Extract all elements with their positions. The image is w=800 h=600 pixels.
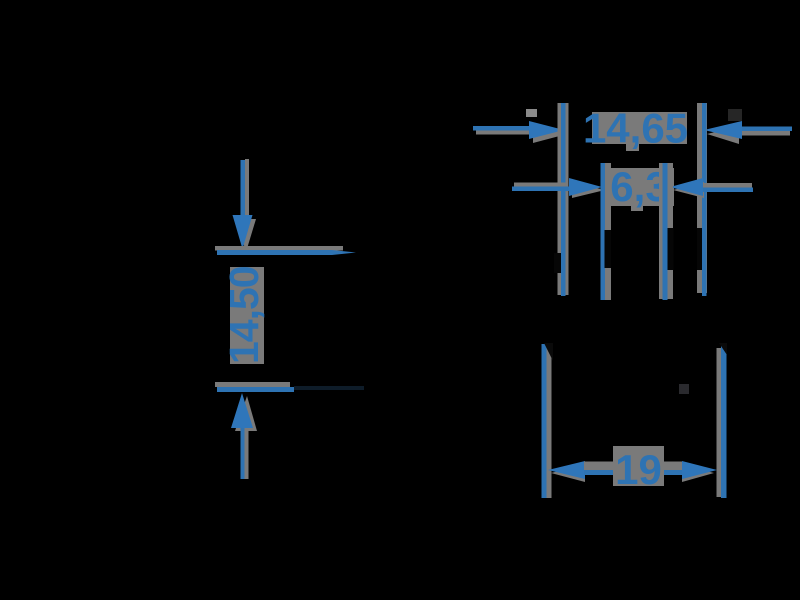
right arrowhead pointing left (blue) [670,178,703,196]
extension line D (gray ghost) [697,103,707,293]
right outer dimension line (gray ghost) [742,131,790,136]
left dimension line segment (blue) [584,470,613,475]
dimension text 14,50 gray halo box [230,267,264,364]
extension line A (gray ghost) [558,103,569,295]
left arrowhead pointing right (gray ghost) [572,182,605,198]
extension leader top vertical line (gray ghost) [245,159,249,219]
right dimension line segment (blue) [664,470,682,475]
right arrowhead pointing left (gray ghost) [707,126,739,144]
left outer dimension line (gray ghost) [514,183,568,188]
left arrowhead pointing right (blue) [529,121,564,139]
left arrowhead pointing left (gray ghost) [551,464,585,482]
right outer dimension line (gray ghost) [704,183,752,188]
right extension line (blue) [721,344,727,498]
left arrowhead pointing right (gray ghost) [533,125,567,143]
extension line B (gray ghost) [605,163,612,300]
pin occluder over extension line B [605,230,612,268]
bottom arrowhead pointing up (blue) [231,393,253,428]
svg-text:14,65: 14,65 [583,105,688,152]
extension leader bottom vertical line (gray ghost) [245,428,249,479]
left extension line top dark notch [544,343,553,361]
dimension line 2 horizontal (blue) [217,387,294,392]
comma gray halo extension (6,3) [631,204,643,211]
pin occluder over extension line D [697,228,702,270]
left arrowhead pointing left (blue) [548,461,585,479]
dimension text 19 gray halo box [613,446,664,486]
extension leader bottom vertical line (blue) [241,428,245,479]
right extension line (gray ghost) [717,348,722,497]
right arrowhead pointing right (blue) [682,461,717,479]
svg-text:19: 19 [615,446,662,493]
left dimension line segment (gray ghost) [584,462,614,471]
left extension line (blue) [542,344,547,498]
bottom arrowhead pointing up (gray ghost) [235,396,257,431]
pin occluder over extension line A [554,253,561,273]
faint dark square artifact [679,384,689,394]
right outer dimension line (blue) [742,127,792,132]
left extension line (gray ghost) [547,348,552,498]
dimension text 6,3 gray halo box [607,168,674,206]
extension line D (blue) [702,103,707,296]
top arrowhead pointing down (gray ghost) [236,219,256,252]
dimension line 2 horizontal (gray ghost) [215,382,290,387]
right outer dimension line (blue) [703,188,753,193]
left outer dimension line (blue) [512,187,570,192]
dimension text 14,65 gray halo box [592,112,687,144]
right arrowhead pointing left (gray ghost) [673,182,704,198]
dark smudge left of right arrow [728,109,742,121]
left outer dimension line (blue) [473,126,530,131]
dimension line 1 horizontal (blue) [217,250,356,255]
left arrowhead pointing right (blue) [569,178,602,196]
gray smudge above left arrow [526,109,537,117]
comma gray halo extension [626,143,639,151]
dimension line 2 faint dark continuation [294,386,364,390]
extension line C (blue) [663,163,668,300]
right arrowhead pointing right (gray ghost) [682,464,714,482]
extension line B (blue) [601,163,606,300]
right extension line top dark notch [719,343,727,355]
extension line A (blue) [561,103,566,296]
extension leader top vertical line (blue) [241,160,246,218]
top arrowhead pointing down (blue) [233,215,253,249]
pin occluder over extension line C [668,228,674,270]
extension line C (gray ghost) [659,163,673,299]
right dimension line segment (gray ghost) [663,462,683,471]
dimension line 1 horizontal (gray ghost) [215,246,343,251]
svg-text:14,50: 14,50 [221,266,267,364]
left outer dimension line (gray ghost) [476,130,532,135]
right arrowhead pointing left (blue) [704,121,742,139]
